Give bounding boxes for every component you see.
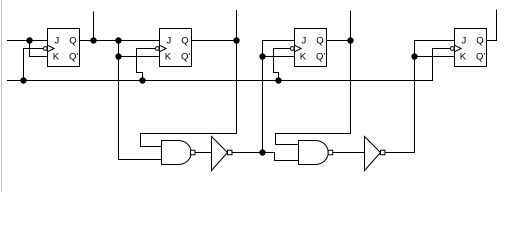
svg-text:K: K <box>165 51 172 62</box>
svg-text:J: J <box>55 35 60 46</box>
svg-text:Q: Q <box>316 35 323 46</box>
svg-text:Q: Q <box>181 35 188 46</box>
svg-text:K: K <box>53 51 60 62</box>
svg-text:J: J <box>462 35 467 46</box>
svg-text:Q': Q' <box>69 51 78 62</box>
svg-text:Q': Q' <box>181 51 190 62</box>
svg-text:Q: Q <box>69 35 76 46</box>
svg-text:J: J <box>167 35 172 46</box>
svg-text:J: J <box>302 35 307 46</box>
svg-text:Q: Q <box>476 35 483 46</box>
svg-text:Q': Q' <box>476 51 485 62</box>
svg-text:K: K <box>460 51 467 62</box>
svg-text:K: K <box>300 51 307 62</box>
svg-text:Q': Q' <box>316 51 325 62</box>
